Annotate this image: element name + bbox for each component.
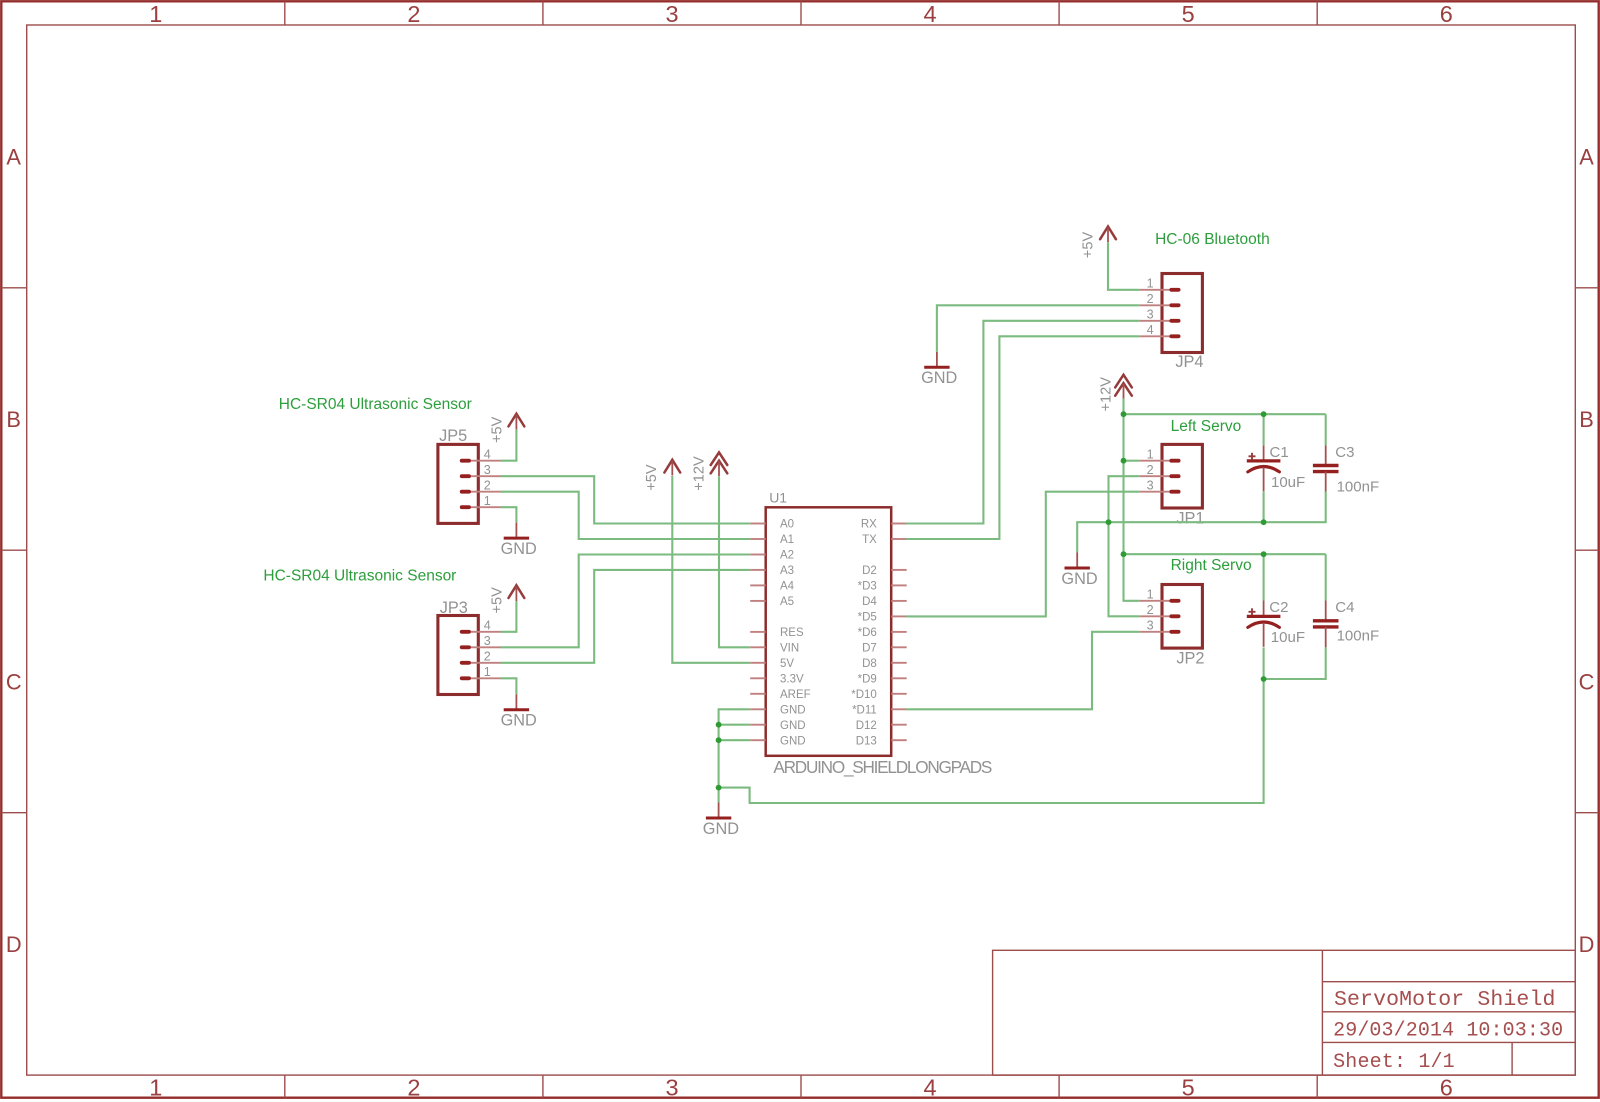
JP4 pad 3 xyxy=(1169,319,1180,323)
wire net RX: JP4 pin3 to U1 RX xyxy=(906,321,1139,524)
wire net GND: spur to U1 GND pin 14 xyxy=(719,739,751,741)
power +5V symbol at U1 5V xyxy=(664,460,680,473)
svg-text:3: 3 xyxy=(484,463,491,477)
wire net GND: U1 GND pins vertical xyxy=(719,709,751,802)
svg-text:JP1: JP1 xyxy=(1176,510,1204,528)
svg-text:5V: 5V xyxy=(780,658,794,670)
svg-text:10uF: 10uF xyxy=(1271,629,1305,646)
svg-text:+5V: +5V xyxy=(644,464,660,491)
IC U1 ARDUINO_SHIELDLONGPADS box xyxy=(766,507,892,756)
svg-text:29/03/2014 10:03:30: 29/03/2014 10:03:30 xyxy=(1333,1019,1563,1042)
svg-text:GND: GND xyxy=(501,712,537,730)
svg-text:1: 1 xyxy=(149,1074,162,1100)
svg-text:D2: D2 xyxy=(862,565,877,577)
JP3 pin 1 stub xyxy=(469,677,501,679)
svg-text:3: 3 xyxy=(1147,478,1154,492)
wire net A2: JP3 pin3 to U1 A2 xyxy=(501,555,751,648)
svg-text:VIN: VIN xyxy=(780,642,799,654)
U1 pin RES stub xyxy=(750,631,766,633)
svg-text:Sheet: 1/1: Sheet: 1/1 xyxy=(1333,1051,1455,1074)
ground symbol near JP5 pin xyxy=(515,523,517,539)
ground symbol below U1 pin xyxy=(718,803,720,819)
svg-text:HC-SR04 Ultrasonic Sensor: HC-SR04 Ultrasonic Sensor xyxy=(279,396,472,413)
svg-text:C: C xyxy=(1579,669,1595,694)
svg-text:B: B xyxy=(1579,407,1594,432)
wire net +5V: tall arrow to U1 5V pin xyxy=(672,476,750,663)
svg-text:C: C xyxy=(6,669,22,694)
svg-text:GND: GND xyxy=(780,735,806,747)
svg-text:+12V: +12V xyxy=(1099,377,1115,412)
wire net +12V: down to JP1 pin1 xyxy=(1122,414,1124,461)
wire net A3: JP3 pin2 to U1 A3 xyxy=(501,570,751,663)
svg-text:3: 3 xyxy=(1147,619,1154,633)
power +5V symbol at JP4 xyxy=(1100,227,1116,240)
U1 pin A4 stub xyxy=(750,584,766,586)
U1 pin TX stub xyxy=(891,538,907,540)
wire net +12V: arrow to U1 VIN pin xyxy=(719,476,750,647)
svg-text:3.3V: 3.3V xyxy=(780,673,804,685)
U1 pin D7 stub xyxy=(891,646,907,648)
U1 pin D4 stub xyxy=(891,600,907,602)
frame row ticks right xyxy=(1575,287,1598,289)
wire net +5V: JP3 pin4 to arrow xyxy=(501,601,517,632)
JP4 pad 4 xyxy=(1169,334,1180,338)
svg-text:1: 1 xyxy=(1147,447,1154,461)
svg-text:6: 6 xyxy=(1440,1,1453,27)
JP3 pin 4 stub xyxy=(469,631,501,633)
JP4 pin 3 stub xyxy=(1139,320,1171,322)
svg-text:GND: GND xyxy=(921,369,957,387)
capacitor C2 (polarized) xyxy=(1263,601,1265,617)
svg-text:*D9: *D9 xyxy=(858,673,877,685)
ground symbol near JP1 bar xyxy=(1065,567,1090,570)
svg-text:A1: A1 xyxy=(780,534,794,546)
svg-text:D8: D8 xyxy=(862,658,877,670)
capacitor C3 (non-polarized) xyxy=(1325,445,1327,465)
wire net GND: C2 bottom rail xyxy=(1264,647,1326,679)
junction U1 GND pin14 xyxy=(716,737,722,743)
JP5 pad 1 xyxy=(460,505,471,509)
svg-text:6: 6 xyxy=(1440,1074,1453,1100)
svg-text:1: 1 xyxy=(484,494,491,508)
frame column ticks bottom xyxy=(284,1075,286,1098)
JP2 pin 2 stub xyxy=(1139,615,1171,617)
ground symbol near JP4 pin xyxy=(936,352,938,368)
wire net TX: JP4 pin4 to U1 TX xyxy=(906,336,1139,539)
U1 pin *D10 stub xyxy=(891,693,907,695)
JP4 pad 1 xyxy=(1169,288,1180,292)
JP5 pin 1 stub xyxy=(469,506,501,508)
frame row ticks left xyxy=(1,287,26,289)
svg-text:2: 2 xyxy=(1147,463,1154,477)
svg-text:GND: GND xyxy=(780,704,806,716)
connector JP3 box xyxy=(438,616,478,695)
U1 pin A0 stub xyxy=(750,523,766,525)
svg-text:4: 4 xyxy=(924,1,937,27)
ground symbol near JP3 bar xyxy=(504,708,529,711)
wire net GND: JP5 pin1 to ground xyxy=(501,507,517,522)
capacitor C1 (polarized) xyxy=(1263,445,1265,461)
svg-text:D: D xyxy=(6,932,22,957)
U1 pin *D5 stub xyxy=(891,615,907,617)
JP3 pad 3 xyxy=(460,645,471,649)
svg-text:U1: U1 xyxy=(769,490,787,506)
svg-text:3: 3 xyxy=(484,634,491,648)
svg-text:ARDUINO_SHIELDLONGPADS: ARDUINO_SHIELDLONGPADS xyxy=(773,757,992,777)
svg-text:5: 5 xyxy=(1182,1,1195,27)
frame column ticks top xyxy=(284,1,286,25)
svg-text:C3: C3 xyxy=(1335,444,1354,461)
svg-text:3: 3 xyxy=(665,1,678,27)
svg-text:4: 4 xyxy=(484,447,491,461)
svg-text:GND: GND xyxy=(780,720,806,732)
svg-text:2: 2 xyxy=(484,478,491,492)
svg-text:+5V: +5V xyxy=(490,587,506,614)
JP2 pad 1 xyxy=(1169,599,1180,603)
svg-text:D4: D4 xyxy=(862,596,877,608)
svg-text:1: 1 xyxy=(1147,588,1154,602)
svg-text:+12V: +12V xyxy=(691,456,707,491)
wire net A1: JP5 pin2 to U1 A1 xyxy=(501,492,751,539)
svg-text:*D3: *D3 xyxy=(858,581,877,593)
svg-text:4: 4 xyxy=(484,619,491,633)
power +12V symbol at U1 VIN xyxy=(711,452,728,465)
svg-text:2: 2 xyxy=(1147,292,1154,306)
wire net +12V: down to JP2 pin1 xyxy=(1124,554,1140,601)
JP5 pad 4 xyxy=(460,459,471,463)
junction +12V right rail at C2 xyxy=(1261,551,1267,557)
svg-text:A5: A5 xyxy=(780,596,794,608)
U1 pin GND stub xyxy=(750,724,766,726)
JP2 pin 1 stub xyxy=(1139,600,1171,602)
svg-text:2: 2 xyxy=(484,650,491,664)
connector JP1 box xyxy=(1162,444,1202,508)
svg-text:4: 4 xyxy=(1147,323,1154,337)
svg-text:+5V: +5V xyxy=(490,416,506,443)
svg-text:2: 2 xyxy=(1147,603,1154,617)
U1 pin GND stub xyxy=(750,708,766,710)
JP5 pad 3 xyxy=(460,474,471,478)
svg-text:HC-06 Bluetooth: HC-06 Bluetooth xyxy=(1155,231,1270,248)
svg-text:RES: RES xyxy=(780,627,804,639)
JP2 pad 3 xyxy=(1169,630,1180,634)
JP2 pad 2 xyxy=(1169,614,1180,618)
wire net GND: JP4 pin2 to ground xyxy=(937,305,1139,352)
svg-text:*D10: *D10 xyxy=(851,689,877,701)
svg-text:3: 3 xyxy=(1147,308,1154,322)
wire net +12V: rail to C4 top xyxy=(1325,554,1327,600)
svg-text:100nF: 100nF xyxy=(1337,479,1380,496)
svg-text:GND: GND xyxy=(1061,570,1097,588)
U1 pin A2 stub xyxy=(750,554,766,556)
JP3 pad 4 xyxy=(460,630,471,634)
svg-text:AREF: AREF xyxy=(780,689,811,701)
wire net *D11: JP2 pin3 to U1 *D11 xyxy=(906,632,1139,710)
JP3 pin 3 stub xyxy=(469,646,501,648)
JP5 pin 2 stub xyxy=(469,491,501,493)
junction U1 GND pin13 xyxy=(716,722,722,728)
junction GND rail at C1 xyxy=(1261,519,1267,525)
JP3 pad 1 xyxy=(460,676,471,680)
svg-text:3: 3 xyxy=(665,1074,678,1100)
JP1 pin 2 stub xyxy=(1139,475,1171,477)
ground symbol below U1 bar xyxy=(706,817,731,820)
capacitor C1 plus sign xyxy=(1249,455,1256,457)
svg-text:TX: TX xyxy=(862,534,877,546)
svg-text:A4: A4 xyxy=(780,581,795,593)
junction +12V right rail at vertical xyxy=(1121,551,1127,557)
svg-text:GND: GND xyxy=(501,540,537,558)
connector JP2 box xyxy=(1162,585,1202,649)
wire net GND: JP1 pin2 / JP2 pin2 vertical xyxy=(1109,476,1140,616)
svg-text:GND: GND xyxy=(703,820,739,838)
wire net *D5: JP1 pin3 to U1 *D5 xyxy=(906,492,1139,617)
U1 pin D8 stub xyxy=(891,662,907,664)
U1 pin VIN stub xyxy=(750,646,766,648)
U1 pin D12 stub xyxy=(891,724,907,726)
junction +12V rail at C1 xyxy=(1261,411,1267,417)
svg-text:D13: D13 xyxy=(856,735,877,747)
wire net A0: JP5 pin3 to U1 A0 xyxy=(501,476,751,523)
svg-text:D7: D7 xyxy=(862,642,877,654)
svg-text:5: 5 xyxy=(1182,1074,1195,1100)
U1 pin A3 stub xyxy=(750,569,766,571)
ground symbol near JP4 bar xyxy=(924,366,949,369)
svg-text:D12: D12 xyxy=(856,720,877,732)
power +5V symbol at JP5 xyxy=(509,414,525,427)
wire net +5V: JP4 pin1 to +5V arrow xyxy=(1108,242,1139,290)
svg-text:+5V: +5V xyxy=(1081,232,1097,259)
capacitor C2 plus sign xyxy=(1249,611,1256,613)
JP5 pin 4 stub xyxy=(469,460,501,462)
junction U1 GND branch xyxy=(716,785,722,791)
title block frame xyxy=(993,950,1576,1075)
JP5 pad 2 xyxy=(460,490,471,494)
U1 pin RX stub xyxy=(891,523,907,525)
JP1 pad 3 xyxy=(1169,490,1180,494)
U1 pin *D3 stub xyxy=(891,584,907,586)
svg-text:*D11: *D11 xyxy=(852,704,877,716)
JP1 pad 1 xyxy=(1169,459,1180,463)
svg-text:C4: C4 xyxy=(1335,599,1354,616)
JP4 pin 1 stub xyxy=(1139,289,1171,291)
JP4 pad 2 xyxy=(1169,303,1180,307)
junction GND bottom rail at C2 xyxy=(1261,676,1267,682)
U1 pin *D6 stub xyxy=(891,631,907,633)
wire net GND: left servo bottom rail xyxy=(1077,491,1326,552)
ground symbol near JP3 pin xyxy=(515,694,517,710)
wire net GND: C2 bottom to rail xyxy=(1263,647,1265,679)
svg-text:A: A xyxy=(6,144,21,169)
wire net GND: servo return to U1 ground xyxy=(719,679,1264,803)
ground symbol near JP5 bar xyxy=(504,537,529,540)
wire net +12V: to JP1 pin1 xyxy=(1124,460,1140,462)
wire net GND: C1 bottom to rail xyxy=(1263,491,1265,522)
svg-text:2: 2 xyxy=(407,1074,420,1100)
wire net +12V: rail to C2 top xyxy=(1263,554,1265,600)
svg-text:C1: C1 xyxy=(1270,444,1289,461)
junction +12V rail at arrow xyxy=(1121,411,1127,417)
capacitor C4 (non-polarized) xyxy=(1325,601,1327,621)
U1 pin *D9 stub xyxy=(891,677,907,679)
JP1 pad 2 xyxy=(1169,474,1180,478)
JP1 pin 3 stub xyxy=(1139,491,1171,493)
U1 pin A5 stub xyxy=(750,600,766,602)
wire net +12V: down to right servo rail xyxy=(1122,461,1124,555)
wire net GND: spur to U1 GND pin 13 xyxy=(719,724,751,726)
power +5V symbol at JP3 xyxy=(509,585,525,598)
ground symbol near JP1 pin xyxy=(1076,553,1078,569)
JP2 pin 3 stub xyxy=(1139,631,1171,633)
svg-text:2: 2 xyxy=(407,1,420,27)
svg-text:D: D xyxy=(1579,932,1595,957)
svg-text:A0: A0 xyxy=(780,519,794,531)
JP4 pin 2 stub xyxy=(1139,304,1171,306)
svg-text:A2: A2 xyxy=(780,550,794,562)
svg-text:1: 1 xyxy=(149,1,162,27)
svg-text:Right Servo: Right Servo xyxy=(1171,557,1252,574)
junction +12V at JP1 pin1 xyxy=(1121,458,1127,464)
power +12V symbol main rail xyxy=(1115,375,1132,388)
svg-text:1: 1 xyxy=(1147,277,1154,291)
wire net +12V: arrow to rail junction xyxy=(1122,399,1124,415)
svg-text:JP4: JP4 xyxy=(1175,353,1203,371)
svg-text:JP2: JP2 xyxy=(1176,649,1204,667)
svg-text:B: B xyxy=(6,407,21,432)
svg-text:JP3: JP3 xyxy=(440,599,468,617)
JP4 pin 4 stub xyxy=(1139,335,1171,337)
wire net +12V: right servo top rail xyxy=(1124,553,1326,555)
junction GND rail at servo vertical xyxy=(1106,519,1112,525)
U1 pin A1 stub xyxy=(750,538,766,540)
JP5 pin 3 stub xyxy=(469,475,501,477)
U1 pin *D11 stub xyxy=(891,708,907,710)
connector JP5 box xyxy=(438,444,478,523)
svg-text:A: A xyxy=(1579,144,1594,169)
JP1 pin 1 stub xyxy=(1139,460,1171,462)
U1 pin GND stub xyxy=(750,739,766,741)
wire net +12V: rail to C3 top xyxy=(1325,414,1327,445)
U1 pin AREF stub xyxy=(750,693,766,695)
svg-text:1: 1 xyxy=(484,665,491,679)
U1 pin 3.3V stub xyxy=(750,677,766,679)
JP3 pin 2 stub xyxy=(469,662,501,664)
svg-text:10uF: 10uF xyxy=(1271,474,1305,491)
svg-text:HC-SR04 Ultrasonic Sensor: HC-SR04 Ultrasonic Sensor xyxy=(263,567,456,584)
svg-text:ServoMotor Shield: ServoMotor Shield xyxy=(1334,988,1555,1012)
svg-text:JP5: JP5 xyxy=(439,427,467,445)
wire net +5V: JP5 pin4 to arrow xyxy=(501,429,517,460)
wire net +12V: rail to C1 top xyxy=(1263,414,1265,445)
svg-text:A3: A3 xyxy=(780,565,794,577)
svg-text:Left Servo: Left Servo xyxy=(1171,418,1242,435)
svg-text:4: 4 xyxy=(924,1074,937,1100)
U1 pin 5V stub xyxy=(750,662,766,664)
svg-text:*D6: *D6 xyxy=(858,627,877,639)
U1 pin D13 stub xyxy=(891,739,907,741)
wire net +12V: left servo top rail xyxy=(1124,413,1326,415)
svg-text:C2: C2 xyxy=(1269,599,1288,616)
svg-text:RX: RX xyxy=(861,519,877,531)
U1 pin D2 stub xyxy=(891,569,907,571)
JP3 pad 2 xyxy=(460,661,471,665)
connector JP4 box xyxy=(1162,274,1202,353)
svg-text:100nF: 100nF xyxy=(1337,628,1380,645)
svg-text:*D5: *D5 xyxy=(858,612,877,624)
wire net GND: JP3 pin1 to ground xyxy=(501,678,517,694)
